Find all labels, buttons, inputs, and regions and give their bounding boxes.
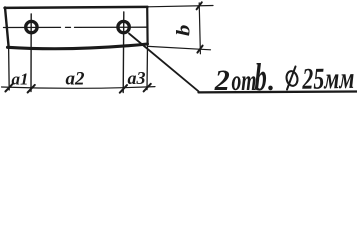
svg-text:a3: a3: [128, 68, 146, 88]
svg-text:от: от: [232, 64, 257, 97]
svg-text:25мм: 25мм: [301, 62, 354, 96]
svg-text:.: .: [268, 66, 275, 97]
svg-text:b: b: [255, 56, 267, 99]
svg-text:2: 2: [214, 64, 230, 97]
svg-text:a1: a1: [12, 69, 29, 88]
svg-text:b: b: [172, 25, 194, 36]
svg-text:a2: a2: [66, 69, 86, 90]
